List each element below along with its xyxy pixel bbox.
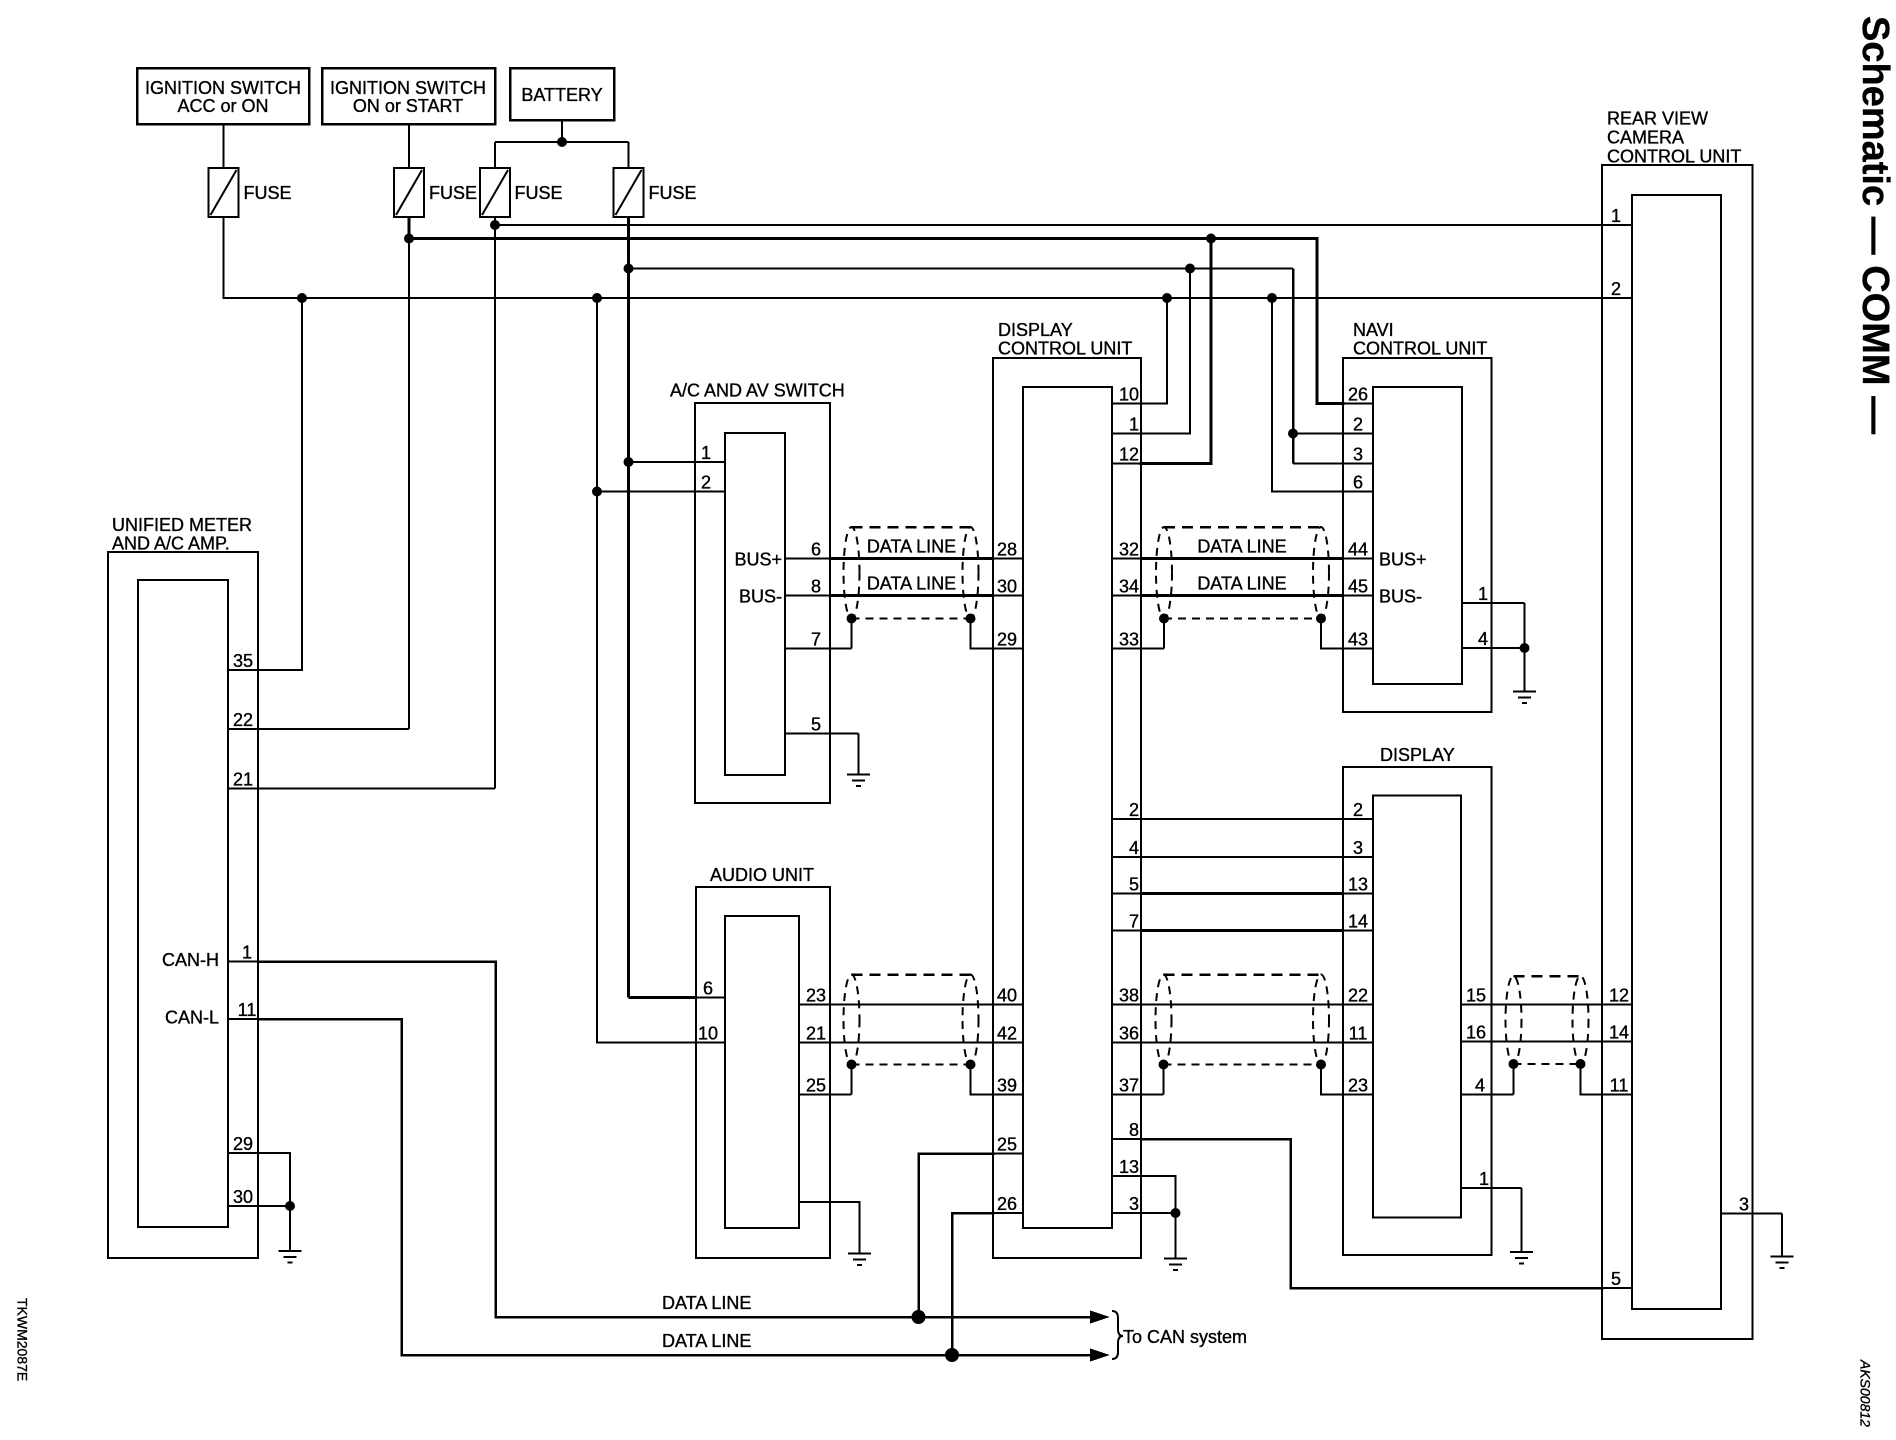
junction line-C to DCU pin 1 xyxy=(1185,264,1195,274)
svg-text:A/C AND AV SWITCH: A/C AND AV SWITCH xyxy=(670,381,845,401)
svg-text:22: 22 xyxy=(233,710,253,730)
label DATA LINE (CAN-L) xyxy=(662,1331,751,1351)
svg-text:CAMERA: CAMERA xyxy=(1607,128,1684,148)
svg-text:22: 22 xyxy=(1348,986,1368,1006)
pin label ACSW 5 xyxy=(811,715,821,735)
svg-text:21: 21 xyxy=(233,770,253,790)
A/C and AV switch title xyxy=(670,381,845,401)
pin label DCU 4 xyxy=(1129,838,1139,858)
svg-text:6: 6 xyxy=(1353,473,1363,493)
pin lead RVC 12 xyxy=(1602,1004,1632,1006)
pin lead NAVI 4 xyxy=(1462,647,1525,649)
svg-text:32: 32 xyxy=(1119,540,1139,560)
wire data line BUS+ (DCU to NAVI) xyxy=(1141,557,1343,560)
pin label ACSW 1 xyxy=(701,443,711,463)
pin lead DCU 12 xyxy=(1112,463,1141,465)
svg-text:26: 26 xyxy=(997,1194,1017,1214)
pin lead NAVI 2 xyxy=(1343,433,1373,435)
svg-text:DATA LINE: DATA LINE xyxy=(662,1293,751,1313)
svg-text:BUS-: BUS- xyxy=(1379,587,1422,607)
pin lead NAVI 1 xyxy=(1462,602,1525,604)
navi control unit title xyxy=(1353,320,1487,359)
svg-text:1: 1 xyxy=(701,443,711,463)
A/C and AV switch outer box xyxy=(695,403,830,803)
junction DCU-NAVI shield right xyxy=(1316,614,1326,624)
svg-text:BUS+: BUS+ xyxy=(1379,550,1427,570)
svg-text:34: 34 xyxy=(1119,577,1139,597)
ground audio unit xyxy=(848,1254,871,1266)
wire shield drain to NAVI pin 43 xyxy=(1321,619,1343,649)
pin lead DCU 37 xyxy=(1112,1094,1164,1096)
svg-text:44: 44 xyxy=(1348,540,1368,560)
svg-text:11: 11 xyxy=(1349,1024,1368,1044)
pin lead DCU 5 xyxy=(1112,893,1141,895)
pin lead UM 1 (CAN-H) xyxy=(228,961,258,963)
pin lead AUDIO 21 xyxy=(799,1042,830,1044)
svg-text:CAN-H: CAN-H xyxy=(162,950,219,970)
label FUSE F1 xyxy=(244,183,292,203)
wire UM pin 22 to F2 line xyxy=(258,728,409,730)
pin lead DCU 34 xyxy=(1112,595,1141,597)
junction audio shield drain left xyxy=(847,1060,857,1070)
pin lead DISPLAY 4 xyxy=(1461,1094,1514,1096)
svg-text:12: 12 xyxy=(1609,986,1629,1006)
ignition switch ON or START box xyxy=(322,68,495,124)
svg-text:2: 2 xyxy=(1353,415,1363,435)
svg-text:BUS-: BUS- xyxy=(739,587,782,607)
wire data line BUS- (ACSW to DCU) xyxy=(830,594,993,597)
audio unit connector box xyxy=(725,916,799,1228)
svg-text:2: 2 xyxy=(1353,800,1363,820)
label FUSE F4 xyxy=(649,183,697,203)
junction NAVI pin 2 tap xyxy=(1288,429,1298,439)
svg-text:40: 40 xyxy=(997,986,1017,1006)
pin lead DCU 33 xyxy=(1112,648,1164,650)
pin lead DISPLAY 14 xyxy=(1343,930,1373,932)
pin label DCU 28 xyxy=(997,540,1017,560)
svg-text:30: 30 xyxy=(233,1187,253,1207)
junction DCU-DISPLAY shield left xyxy=(1159,1060,1169,1070)
svg-text:3: 3 xyxy=(1353,838,1363,858)
wire UM pin 21 to F3 line xyxy=(258,788,495,790)
wire DCU 7 to DISPLAY 14 xyxy=(1141,929,1343,932)
pin lead ACSW 6 xyxy=(785,558,830,560)
pin label DISPLAY 22 xyxy=(1348,986,1368,1006)
display title xyxy=(1380,745,1455,765)
pin label NAVI 26 xyxy=(1348,385,1368,405)
svg-text:4: 4 xyxy=(1475,1076,1485,1096)
svg-text:AND A/C AMP.: AND A/C AMP. xyxy=(112,534,230,554)
svg-text:7: 7 xyxy=(811,630,821,650)
pin label DCU 26 xyxy=(997,1194,1017,1214)
pin lead DCU 42 xyxy=(993,1042,1023,1044)
sheet title Schematic COMM xyxy=(1854,16,1896,434)
pin lead DISPLAY 1 xyxy=(1461,1187,1522,1189)
pin lead DCU 28 xyxy=(993,558,1023,560)
junction line-B to DCU pin 12 xyxy=(1206,234,1216,244)
junction line-C at F4 xyxy=(624,264,634,274)
net label BUS- (NAVI) xyxy=(1379,587,1422,607)
wire CAN-H data line to arrow xyxy=(496,1316,1103,1319)
pin label DCU 1 xyxy=(1129,415,1139,435)
wire UM pins 29/30 to ground xyxy=(289,1206,291,1251)
svg-text:29: 29 xyxy=(233,1134,253,1154)
wire shield drain to DISPLAY pin 23 xyxy=(1321,1065,1343,1095)
svg-text:2: 2 xyxy=(1129,800,1139,820)
wire DCU 13 down xyxy=(1141,1176,1176,1213)
svg-text:15: 15 xyxy=(1466,986,1486,1006)
pin lead AUDIO 25 xyxy=(799,1094,852,1096)
wire DCU 3 xyxy=(1141,1212,1176,1214)
junction line-D to NAVI pin 6 xyxy=(1267,293,1277,303)
junction line-A at F3 xyxy=(490,220,500,230)
pin label DCU 5 xyxy=(1129,875,1139,895)
pin lead ACSW 5 xyxy=(785,733,859,735)
pin lead ACSW 8 xyxy=(785,595,830,597)
svg-text:2: 2 xyxy=(1611,279,1621,299)
wire fuse F2 vertical to UM pin 22 xyxy=(408,239,410,730)
junction line-B at F2 xyxy=(404,234,414,244)
svg-text:10: 10 xyxy=(1119,385,1139,405)
pin label DCU 30 xyxy=(997,577,1017,597)
svg-text:Schematic — COMM —: Schematic — COMM — xyxy=(1854,16,1896,434)
pin label DCU 37 xyxy=(1119,1076,1139,1096)
fuse F3 (BAT) xyxy=(480,168,510,217)
svg-text:12: 12 xyxy=(1119,445,1139,465)
wire IGN-ACC to fuse F1 xyxy=(223,124,225,168)
pin lead UM 11 (CAN-L) xyxy=(228,1018,258,1020)
wire line-D branch to DCU pin 10 xyxy=(1141,298,1167,404)
wire line-B heavy horizontal xyxy=(409,237,1317,240)
pin lead DCU 25 xyxy=(993,1153,1023,1155)
wire DISPLAY 4 shield drain xyxy=(1513,1064,1515,1095)
junction DCU-DISPLAY shield right xyxy=(1316,1060,1326,1070)
pin label DCU 42 xyxy=(997,1024,1017,1044)
svg-text:AUDIO UNIT: AUDIO UNIT xyxy=(710,865,814,885)
svg-text:FUSE: FUSE xyxy=(244,183,292,203)
label DATA LINE (DCU-NAVI upper) xyxy=(1197,537,1286,557)
svg-text:39: 39 xyxy=(997,1076,1017,1096)
shield DISPLAY-RVC pair xyxy=(1506,976,1589,1064)
svg-text:DATA LINE: DATA LINE xyxy=(867,574,956,594)
pin label NAVI 2 xyxy=(1353,415,1363,435)
junction battery bus xyxy=(557,137,567,147)
svg-text:37: 37 xyxy=(1119,1076,1139,1096)
unified meter and A/C amp outer box xyxy=(108,552,258,1258)
pin lead DCU 2 xyxy=(1112,818,1141,820)
label To CAN system xyxy=(1123,1327,1247,1347)
label DATA LINE (CAN-H) xyxy=(662,1293,751,1313)
wire AUDIO 25 shield drain xyxy=(851,1065,853,1095)
pin label AUDIO 6 xyxy=(703,979,713,999)
svg-text:25: 25 xyxy=(997,1135,1017,1155)
pin lead DISPLAY 16 xyxy=(1461,1041,1492,1043)
svg-text:29: 29 xyxy=(997,630,1017,650)
junction line-D to UM pin 35 xyxy=(297,293,307,303)
wire IGN-ON to fuse F2 xyxy=(408,124,410,168)
wire line-C horizontal xyxy=(629,268,1294,270)
pin label UM 30 xyxy=(233,1187,253,1207)
pin lead DISPLAY 3 xyxy=(1343,856,1373,858)
svg-text:5: 5 xyxy=(1129,875,1139,895)
wire DISPLAY 16 to RVC 14 xyxy=(1492,1041,1603,1043)
pin lead RVC 5 xyxy=(1602,1287,1632,1289)
pin label DISPLAY 2 xyxy=(1353,800,1363,820)
wire AUDIO 21 to DCU 42 xyxy=(830,1042,1023,1044)
pin lead RVC 11 xyxy=(1602,1094,1632,1096)
ground rear view camera control unit xyxy=(1771,1257,1794,1269)
svg-text:14: 14 xyxy=(1609,1023,1629,1043)
svg-text:CONTROL UNIT: CONTROL UNIT xyxy=(998,339,1132,359)
pin label DCU 10 xyxy=(1119,385,1139,405)
svg-text:13: 13 xyxy=(1348,875,1368,895)
pin label DISPLAY 23 xyxy=(1348,1076,1368,1096)
svg-text:1: 1 xyxy=(1479,1169,1489,1189)
label DATA LINE (ACSW-DCU lower) xyxy=(867,574,956,594)
pin label AUDIO 23 xyxy=(806,986,826,1006)
svg-text:1: 1 xyxy=(242,943,252,963)
A/C and AV switch connector box xyxy=(725,433,785,775)
pin lead NAVI 6 xyxy=(1343,491,1373,493)
wire shield drain to DCU pin 39 xyxy=(971,1065,1024,1095)
pin lead DISPLAY 11 xyxy=(1343,1042,1373,1044)
pin label DCU 3 xyxy=(1129,1194,1139,1214)
svg-text:BATTERY: BATTERY xyxy=(521,85,602,105)
svg-text:FUSE: FUSE xyxy=(649,183,697,203)
pin lead UM 29 xyxy=(228,1152,258,1154)
svg-text:25: 25 xyxy=(806,1076,826,1096)
pin label DISPLAY 4 xyxy=(1475,1076,1485,1096)
junction audio shield drain right xyxy=(966,1060,976,1070)
pin label DCU 13 xyxy=(1119,1157,1139,1177)
svg-text:23: 23 xyxy=(806,986,826,1006)
pin lead DCU 4 xyxy=(1112,856,1141,858)
pin lead DCU 32 xyxy=(1112,558,1141,560)
svg-text:45: 45 xyxy=(1348,577,1368,597)
pin label DCU 32 xyxy=(1119,540,1139,560)
svg-text:6: 6 xyxy=(703,979,713,999)
fuse F1 (ACC) xyxy=(209,168,239,217)
display outer box xyxy=(1343,767,1492,1255)
ground display control unit xyxy=(1164,1259,1187,1271)
wire branch to audio pin 10 xyxy=(597,1042,725,1044)
pin lead NAVI 44 xyxy=(1343,558,1373,560)
navi control unit connector box xyxy=(1373,387,1462,684)
svg-text:ACC or ON: ACC or ON xyxy=(177,96,268,116)
display control unit outer box xyxy=(993,358,1141,1258)
pin lead DISPLAY 2 xyxy=(1343,818,1373,820)
wire data line BUS- (DCU to NAVI) xyxy=(1141,594,1343,597)
net label BUS+ (NAVI) xyxy=(1379,550,1427,570)
pin label DISPLAY 14 xyxy=(1348,912,1368,932)
svg-text:6: 6 xyxy=(811,540,821,560)
display connector box xyxy=(1373,796,1461,1218)
svg-text:23: 23 xyxy=(1348,1076,1368,1096)
wire battery bus to fuse F4 xyxy=(628,142,630,168)
pin lead DISPLAY 13 xyxy=(1343,893,1373,895)
pin lead DCU 36 xyxy=(1112,1042,1141,1044)
pin lead DISPLAY 23 xyxy=(1343,1094,1373,1096)
pin label DCU 8 xyxy=(1129,1120,1139,1140)
pin lead DCU 38 xyxy=(1112,1004,1141,1006)
svg-text:30: 30 xyxy=(997,577,1017,597)
pin lead DCU 26 xyxy=(993,1212,1023,1214)
wire fuse F2 output stub xyxy=(408,217,411,239)
svg-text:CONTROL UNIT: CONTROL UNIT xyxy=(1607,147,1741,167)
pin label DCU 34 xyxy=(1119,577,1139,597)
pin label DCU 36 xyxy=(1119,1024,1139,1044)
wire shield drain to RVC pin 11 xyxy=(1581,1064,1603,1095)
pin lead NAVI 43 xyxy=(1343,648,1373,650)
wire shield drain to DCU pin 29 xyxy=(971,619,1024,649)
shield ACSW-DCU data pair xyxy=(844,527,979,619)
pin lead RVC 2 xyxy=(1602,297,1632,299)
svg-text:4: 4 xyxy=(1129,838,1139,858)
svg-text:1: 1 xyxy=(1129,415,1139,435)
pin label NAVI 45 xyxy=(1348,577,1368,597)
pin label UM 1 xyxy=(242,943,252,963)
svg-text:NAVI: NAVI xyxy=(1353,320,1394,340)
wire to audio pin 6 xyxy=(629,996,697,999)
pin label RVC 1 xyxy=(1611,206,1621,226)
svg-text:CAN-L: CAN-L xyxy=(165,1008,219,1028)
net label CAN-L xyxy=(165,1008,219,1028)
svg-text:8: 8 xyxy=(1129,1120,1139,1140)
rear view camera control unit title xyxy=(1607,109,1741,167)
wire DCU 2 to DISPLAY 2 xyxy=(1141,818,1343,820)
arrowhead CAN-L to CAN system xyxy=(1090,1349,1110,1362)
svg-text:2: 2 xyxy=(701,473,711,493)
wire NAVI 4 to ground xyxy=(1524,648,1526,692)
pin label ACSW 8 xyxy=(811,577,821,597)
wire line-C vertical at NAVI xyxy=(1292,269,1295,464)
pin label DCU 40 xyxy=(997,986,1017,1006)
pin label UM 22 xyxy=(233,710,253,730)
svg-text:CONTROL UNIT: CONTROL UNIT xyxy=(1353,339,1487,359)
pin lead DCU 1 xyxy=(1112,433,1141,435)
unified meter and A/C amp title xyxy=(112,515,252,554)
svg-text:FUSE: FUSE xyxy=(429,183,477,203)
svg-text:1: 1 xyxy=(1611,206,1621,226)
junction DCU 13/3 xyxy=(1171,1208,1181,1218)
svg-text:DATA LINE: DATA LINE xyxy=(1197,574,1286,594)
svg-text:5: 5 xyxy=(1611,1269,1621,1289)
wire RVC 3 to ground xyxy=(1781,1214,1783,1257)
junction DISPLAY-RVC shield right xyxy=(1576,1059,1586,1069)
junction shield drain left (ACSW side) xyxy=(847,614,857,624)
fuse F4 (BAT) xyxy=(614,168,644,217)
pin label RVC 12 xyxy=(1609,986,1629,1006)
wire CAN-H heavy xyxy=(258,962,496,1318)
shield DCU-DISPLAY pair xyxy=(1156,975,1330,1065)
svg-text:26: 26 xyxy=(1348,385,1368,405)
svg-text:DATA LINE: DATA LINE xyxy=(662,1331,751,1351)
wire UM pin 29 down xyxy=(258,1153,290,1206)
wire fuse F4 heavy vertical xyxy=(627,217,630,998)
svg-text:36: 36 xyxy=(1119,1024,1139,1044)
pin label DCU 39 xyxy=(997,1076,1017,1096)
pin label NAVI 1 xyxy=(1478,584,1488,604)
svg-text:16: 16 xyxy=(1466,1023,1486,1043)
wire CAN-L data line to arrow xyxy=(402,1354,1103,1357)
pin label AUDIO 21 xyxy=(806,1024,826,1044)
pin label UM 11 xyxy=(238,1000,257,1020)
pin lead DCU 8 xyxy=(1112,1138,1141,1140)
wire ACSW 7 shield drain xyxy=(851,619,853,649)
svg-text:3: 3 xyxy=(1739,1195,1749,1215)
svg-text:DATA LINE: DATA LINE xyxy=(867,537,956,557)
pin label DISPLAY 15 xyxy=(1466,986,1486,1006)
pin label RVC 5 xyxy=(1611,1269,1621,1289)
shield DCU-NAVI data pair xyxy=(1156,527,1329,619)
wire UM pin 30 xyxy=(258,1205,290,1207)
pin lead AUDIO 23 xyxy=(799,1004,830,1006)
pin label DCU 7 xyxy=(1129,912,1139,932)
pin label NAVI 43 xyxy=(1348,630,1368,650)
pin lead UM 35 xyxy=(228,669,258,671)
junction DCU-NAVI shield left xyxy=(1159,614,1169,624)
wire line-D branch to NAVI pin 6 xyxy=(1272,298,1343,492)
svg-text:14: 14 xyxy=(1348,912,1368,932)
label DATA LINE (ACSW-DCU upper) xyxy=(867,537,956,557)
junction line-D to AC-AV switch pin 2 xyxy=(592,293,602,303)
pin label ACSW 7 xyxy=(811,630,821,650)
svg-text:DISPLAY: DISPLAY xyxy=(998,320,1073,340)
pin label DCU 29 xyxy=(997,630,1017,650)
ground A/C and AV switch xyxy=(847,775,870,787)
pin label DCU 38 xyxy=(1119,986,1139,1006)
wire DCU 25 to CAN-H data line xyxy=(919,1154,994,1318)
pin lead DCU 3 xyxy=(1112,1212,1141,1214)
ground unified meter xyxy=(279,1251,302,1263)
pin label RVC 11 xyxy=(1610,1076,1629,1096)
wire fuse F1 output xyxy=(224,217,1603,298)
wire line-D branch to UM pin 35 xyxy=(258,298,302,670)
pin label DCU 33 xyxy=(1119,630,1139,650)
pin label AUDIO 25 xyxy=(806,1076,826,1096)
wire line-D branch vertical to audio pin 10 xyxy=(596,298,598,1043)
audio unit outer box xyxy=(696,887,830,1258)
net label BUS+ (ACSW) xyxy=(734,550,782,570)
pin lead DCU 39 xyxy=(993,1094,1023,1096)
wire line-C branch to DCU pin 1 xyxy=(1141,269,1190,434)
pin lead UM 21 xyxy=(228,788,258,790)
pin label DISPLAY 3 xyxy=(1353,838,1363,858)
wire DCU 38 to DISPLAY 22 xyxy=(1141,1004,1343,1006)
wire to AC-AV switch pin 2 xyxy=(597,491,725,493)
pin label RVC 2 xyxy=(1611,279,1621,299)
svg-text:5: 5 xyxy=(811,715,821,735)
pin lead AUDIO 6 xyxy=(696,997,725,999)
pin lead RVC 3 xyxy=(1721,1213,1782,1215)
pin label RVC 14 xyxy=(1609,1023,1629,1043)
svg-text:4: 4 xyxy=(1478,629,1488,649)
pin label NAVI 6 xyxy=(1353,473,1363,493)
pin lead DCU 10 xyxy=(1112,403,1141,405)
pin lead ACSW 7 xyxy=(785,648,852,650)
wire DCU 8 to rear camera pin 5 xyxy=(1141,1139,1602,1288)
net label CAN-H xyxy=(162,950,219,970)
junction DISPLAY-RVC shield left xyxy=(1509,1059,1519,1069)
pin lead NAVI 3 xyxy=(1343,463,1373,465)
svg-text:43: 43 xyxy=(1348,630,1368,650)
svg-text:IGNITION SWITCH: IGNITION SWITCH xyxy=(330,78,486,98)
ground navi control unit xyxy=(1513,692,1536,704)
junction line-D to DCU pin 10 xyxy=(1162,293,1172,303)
label DATA LINE (DCU-NAVI lower) xyxy=(1197,574,1286,594)
pin lead DCU 30 xyxy=(993,595,1023,597)
pin label NAVI 3 xyxy=(1353,445,1363,465)
